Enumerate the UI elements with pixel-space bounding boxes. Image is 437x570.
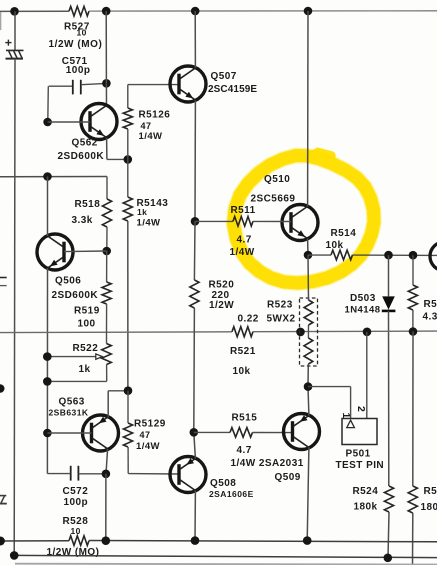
resistor R5129 (123, 423, 132, 447)
svg-text:1k: 1k (137, 207, 147, 217)
transistor Q507 (170, 66, 206, 102)
node junction Q508 emitter / R515 (190, 428, 199, 437)
wire R516 bottom (412, 310, 414, 332)
svg-text:Q508: Q508 (210, 478, 236, 489)
wire Q507 base / R5126 top (128, 84, 180, 86)
wire R5129 bottom to Q508 base (127, 447, 129, 474)
resistor R511 (233, 217, 253, 227)
node junction bottom rail x0 (clipped) (0, 537, 5, 546)
svg-text:R5129: R5129 (134, 419, 166, 430)
svg-text:10k: 10k (233, 366, 251, 377)
wire C571 right leg (81, 83, 106, 84)
node junction Q509 emitter / P501 (304, 382, 313, 391)
wire C572 right leg (79, 473, 106, 475)
resistor R515 (230, 428, 253, 438)
node junction x413 y255 (409, 251, 418, 260)
wire R522 top (106, 332, 108, 344)
diode D503 1N4148 (382, 296, 395, 309)
node junction mid bus x413 (409, 327, 418, 336)
node junction R511 left (191, 217, 200, 226)
svg-text:0.22: 0.22 (238, 313, 259, 324)
node junction left edge y388 (clipped) (0, 384, 5, 393)
svg-text:D503: D503 (350, 293, 376, 304)
wire Q562 emitter (106, 138, 108, 160)
svg-text:4.7: 4.7 (237, 445, 252, 456)
svg-text:2: 2 (355, 406, 367, 412)
svg-text:C572: C572 (63, 486, 89, 497)
wire mid bus left of R521 (0, 331, 232, 334)
resistor R524 (384, 486, 393, 512)
svg-text:R521: R521 (230, 346, 256, 357)
wire R514 right leg (353, 254, 437, 256)
svg-text:1k: 1k (79, 364, 91, 375)
wire Q508 collector (194, 491, 196, 541)
resistor R514 (331, 250, 353, 260)
svg-text:1/2W (MO): 1/2W (MO) (49, 39, 103, 50)
wire bottom rail 1 left (0, 540, 69, 542)
node junction bottom rail2 x388 (384, 554, 393, 563)
wire R5129 top (127, 391, 129, 423)
wire R515 right leg (Q509 base) (253, 432, 294, 434)
node junction bottom rail x195 (191, 536, 200, 545)
svg-text:100: 100 (78, 319, 96, 330)
transistor Q508 (170, 457, 206, 493)
wire R5143 top (127, 159, 129, 197)
node junction x106 y83 (C571 / Q562 collector) (102, 79, 111, 88)
capacitor C572 (70, 466, 72, 481)
connector P501 box (342, 419, 377, 445)
svg-text:R514: R514 (331, 228, 357, 239)
resistor R5126 (123, 108, 132, 129)
svg-text:1/4W: 1/4W (136, 441, 160, 452)
resistor R521 0.22 (in bus) (232, 327, 253, 337)
svg-text:10: 10 (71, 526, 81, 536)
svg-text:1/2W: 1/2W (209, 300, 234, 311)
resistor R520 (190, 280, 199, 308)
wire Q509 collector (307, 447, 309, 540)
node junction mid bus x367 (363, 328, 372, 337)
svg-text:3.3k: 3.3k (72, 215, 93, 226)
capacitor (edge, cut) plates (0, 277, 7, 279)
wire left vertical long run (13, 59, 16, 556)
wire R511 left leg (195, 220, 233, 222)
svg-text:5WX2: 5WX2 (267, 313, 296, 324)
svg-text:1/4W: 1/4W (139, 131, 163, 142)
svg-text:R522: R522 (73, 343, 99, 354)
svg-text:R525: R525 (424, 486, 437, 497)
wire R525 vertical run (412, 332, 414, 487)
svg-text:100p: 100p (64, 497, 89, 508)
node junction R522 bottom (43, 377, 52, 386)
resistor R516 4.3 (upper right) (408, 285, 417, 310)
transistor Q509 (284, 414, 320, 450)
svg-text:TEST PIN: TEST PIN (336, 460, 385, 471)
svg-text:180k: 180k (354, 501, 378, 512)
svg-text:1/4W: 1/4W (230, 247, 255, 258)
wire left vertical upper (14, 11, 16, 50)
wire Q562 base (48, 121, 91, 123)
wire top rail left segment (0, 10, 69, 12)
wire Q507 emitter run (194, 100, 196, 221)
wire horizontal y176 to page edge (0, 176, 107, 178)
node junction Q563 base (43, 429, 52, 438)
resistor R525 (right, clipped labels) (408, 486, 417, 513)
svg-text:R519: R519 (74, 305, 100, 316)
svg-text:R516: R516 (424, 299, 437, 310)
node junction C572 / Q563 collector (102, 470, 111, 479)
wire R519 top (106, 251, 108, 282)
svg-text:Q509: Q509 (275, 472, 301, 483)
svg-text:100p: 100p (66, 65, 91, 76)
resistor R5143 (123, 197, 132, 221)
node junction Q506 base / R519 top (102, 247, 111, 256)
transistor Q506 (37, 234, 73, 270)
scan mark top-left edge (0, 12, 2, 30)
transistor Q562 (81, 104, 117, 140)
node junction mid bus x300 (296, 328, 305, 337)
svg-text:47: 47 (141, 121, 152, 131)
wire R511 right leg (Q510 base) (253, 220, 291, 222)
svg-text:2SC4159E: 2SC4159E (208, 84, 257, 95)
resistor R522 (trimmer) (102, 344, 112, 365)
wire R5126 bottom (127, 129, 129, 159)
wire R5143 bottom long run (127, 221, 129, 391)
svg-text:4.7: 4.7 (237, 235, 252, 246)
svg-text:180k: 180k (421, 502, 437, 513)
svg-text:2SD600K: 2SD600K (58, 151, 105, 162)
svg-text:R524: R524 (353, 486, 379, 497)
wire C572 left leg (47, 473, 70, 475)
wire Q506 collector (47, 177, 49, 237)
wire Q562 collector to top rail (105, 11, 107, 83)
wire R515 left leg (194, 431, 230, 433)
svg-text:47: 47 (140, 430, 151, 440)
wire mid bus right of R521 (253, 330, 437, 333)
wire P501 pin1 link (308, 386, 351, 388)
wire R514 left leg (308, 254, 331, 256)
svg-text:R5126: R5126 (139, 110, 171, 121)
wire bottom rail 2 (14, 555, 437, 557)
node junction top rail x308 (304, 7, 313, 16)
wire top rail right segment (89, 10, 437, 12)
wire Q562 collector stub (105, 83, 107, 105)
wire D503 cathode run (388, 311, 390, 486)
resistor R528 (69, 536, 89, 546)
wire R523 bottom (307, 364, 309, 387)
wire R520 top (193, 221, 196, 280)
svg-text:2SC5669: 2SC5669 (251, 193, 296, 204)
wire Q508 emitter (194, 432, 196, 458)
wire P501 pin2 link (366, 332, 368, 419)
capacitor C571 (72, 80, 74, 95)
wire Q563 emitter (107, 391, 109, 418)
svg-text:1/4W 2SA2031: 1/4W 2SA2031 (231, 458, 304, 469)
node junction Q510 emitter / R514 (304, 251, 313, 260)
svg-text:1N4148: 1N4148 (345, 304, 381, 315)
svg-text:R511: R511 (231, 205, 256, 216)
node junction Q562 base (43, 118, 52, 127)
svg-text:4.3: 4.3 (423, 312, 437, 323)
wire R518 top stub (106, 177, 108, 200)
component outline R523 dashed box (300, 298, 318, 366)
resistor R519 (102, 282, 111, 304)
wire R520 bottom run (193, 308, 196, 432)
svg-text:Q510: Q510 (264, 174, 290, 185)
resistor R523b (0.22 lower) (304, 338, 313, 364)
node junction top rail x106 (102, 7, 111, 16)
svg-text:Q562: Q562 (72, 137, 98, 148)
transistor Q563 (83, 415, 119, 451)
resistor R518 (102, 199, 111, 227)
svg-text:R520: R520 (209, 279, 235, 290)
wire R518 to Q506 base node (106, 227, 108, 251)
scan edge line bottom (15, 563, 437, 566)
node junction x47 y176 (43, 172, 52, 181)
svg-text:R523: R523 (267, 300, 293, 311)
wire R519 bottom (106, 304, 108, 332)
svg-text:R515: R515 (232, 412, 258, 423)
wire Q507 collector (194, 11, 196, 68)
svg-text:10: 10 (77, 28, 87, 38)
resistor R523a (0.22 upper) (304, 300, 313, 325)
wire C571 left leg (49, 85, 73, 87)
node junction top rail x14 (10, 7, 19, 16)
wire Q563 collector (106, 449, 108, 474)
wire R525 bottom run (412, 513, 414, 565)
wire R522 bottom wrap (106, 365, 108, 382)
capacitor (bottom edge, cut) hatched (0, 495, 6, 497)
svg-text:Q563: Q563 (59, 397, 85, 408)
wire R516 top (412, 255, 414, 285)
wire D503 anode (388, 255, 390, 296)
svg-text:1/4W: 1/4W (137, 218, 161, 229)
capacitor C570 polarized (hatched) with + sign (5, 42, 11, 44)
svg-text:R518: R518 (75, 199, 101, 210)
svg-text:Q506: Q506 (55, 276, 81, 287)
wire Q563 base (47, 432, 91, 434)
node junction bottom rail2 x14 (10, 551, 19, 560)
svg-text:2SA1606E: 2SA1606E (209, 489, 254, 499)
wiper arrow R522 (47, 356, 96, 358)
wire bottom rail 1 right (89, 541, 437, 542)
node junction bottom rail x307 (303, 536, 312, 545)
wire Q510 emitter to R523 (307, 255, 310, 300)
node junction bottom rail x106 (102, 536, 111, 545)
wire Q510 collector (307, 11, 309, 207)
wire R524 bottom (388, 512, 389, 558)
node junction x388 y255 (384, 251, 393, 260)
wire R523 mid link (307, 325, 309, 338)
node junction R522 wiper (43, 352, 52, 361)
resistor R527 (69, 6, 89, 16)
yellow highlighter circle around Q510 (234, 156, 375, 284)
wire Q563 collector to bottom rail (105, 474, 107, 541)
node junction x128 y159 (Q562 emitter / R5126 / R5143) (124, 155, 133, 164)
wire Q510 emitter (307, 239, 309, 256)
node junction top rail x195 (191, 7, 200, 16)
svg-text:1: 1 (340, 413, 352, 419)
svg-text:P501: P501 (346, 448, 371, 459)
transistor (right edge, clipped) (430, 242, 437, 271)
node junction x128 y390 (Q563 emitter / R5129) (124, 386, 133, 395)
wire Q509 emitter (307, 387, 310, 416)
svg-text:2SB631K: 2SB631K (49, 407, 89, 417)
svg-text:Q507: Q507 (211, 71, 237, 82)
svg-text:10k: 10k (326, 240, 344, 251)
svg-text:2SD600K: 2SD600K (52, 290, 99, 301)
wire Q506 emitter run (46, 268, 48, 474)
wire Q506 base (64, 250, 107, 253)
transistor Q510 (282, 205, 318, 241)
